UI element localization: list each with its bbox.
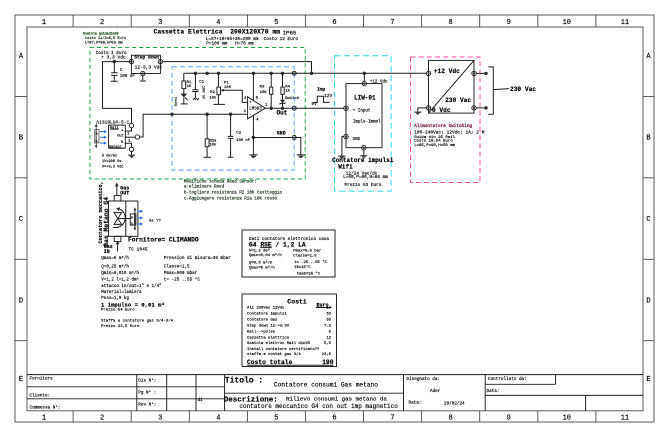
svg-text:t= -25 ..55 °C: t= -25 ..55 °C — [294, 260, 327, 265]
svg-text:TC 1045: TC 1045 — [128, 246, 148, 252]
wire 12V feed from PSU to step-down — [163, 62, 312, 74]
svg-text:2: 2 — [100, 19, 104, 27]
wire LIW GND to ground — [342, 137, 344, 156]
svg-text:Contatore consumi Gas metano: Contatore consumi Gas metano — [274, 381, 378, 388]
svg-text:Prezzo 63 Euro: Prezzo 63 Euro — [345, 183, 382, 188]
svg-text:1V=200 Gs: 1V=200 Gs — [102, 160, 121, 164]
svg-text:10: 10 — [563, 19, 571, 27]
ground hall pin3 — [128, 152, 135, 158]
svg-text:L=69,P=90,H=66 mm: L=69,P=90,H=66 mm — [343, 175, 388, 180]
svg-text:Switch: Switch — [285, 96, 300, 101]
impulse counter module LIW-01 — [344, 80, 388, 150]
svg-text:Pg N° :: Pg N° : — [138, 390, 156, 395]
svg-text:Cliente:: Cliente: — [30, 393, 51, 398]
costs table box — [242, 294, 337, 367]
svg-text:230 Vac: 230 Vac — [510, 86, 536, 93]
ground stepdown — [140, 76, 146, 81]
svg-text:9: 9 — [507, 415, 511, 423]
gas meter G4 mechanical counter — [104, 183, 162, 255]
svg-text:0: 0 — [121, 141, 123, 145]
svg-text:Contatore Gas: Contatore Gas — [247, 319, 278, 323]
svg-text:Pmax=500 mbar: Pmax=500 mbar — [164, 271, 198, 276]
svg-text:10k: 10k — [209, 143, 217, 148]
svg-text:C: C — [19, 216, 23, 224]
svg-text:Hall: Hall — [110, 126, 119, 131]
ground op-amp pin4 — [249, 155, 258, 158]
svg-text:10: 10 — [563, 415, 571, 423]
svg-text:Contatore impulsi: Contatore impulsi — [247, 312, 287, 317]
svg-text:63: 63 — [326, 313, 331, 317]
GND net rail — [253, 130, 300, 154]
modification notes — [184, 179, 282, 201]
svg-text:Wifi: Wifi — [338, 164, 353, 171]
svg-text:C: C — [646, 216, 650, 224]
svg-text:C2: C2 — [236, 132, 241, 136]
svg-text:Hall-->pulse: Hall-->pulse — [247, 330, 276, 335]
connector bracket 230Vac — [488, 67, 493, 114]
svg-text:Rilievo consumi gas metano da: Rilievo consumi gas metano da — [286, 396, 387, 403]
svg-text:20/02/24: 20/02/24 — [444, 401, 465, 406]
meter specs right column — [164, 256, 231, 282]
electronic meter data box — [242, 230, 335, 277]
svg-text:+12 Vdc: +12 Vdc — [370, 80, 388, 85]
ground LIW gnd pin — [338, 156, 345, 158]
PSU notes — [414, 124, 485, 148]
svg-text:Rev N°:: Rev N°: — [138, 402, 156, 407]
magnet symbol at hall — [95, 124, 107, 149]
svg-text:GND: GND — [353, 138, 361, 142]
hall sensor U-hall A1319LUA-5-1 — [96, 119, 139, 151]
svg-text:Costo 18,54 Euro: Costo 18,54 Euro — [414, 139, 453, 144]
pink dashed power-supply box — [411, 57, 481, 183]
svg-text:Prezzo 23,5 Euro: Prezzo 23,5 Euro — [101, 324, 140, 329]
svg-text:Pmax=0,5 bar: Pmax=0,5 bar — [293, 249, 321, 254]
top header texts — [83, 29, 298, 47]
svg-text:6: 6 — [332, 415, 336, 423]
svg-text:2: 2 — [100, 415, 104, 423]
svg-text:Ader: Ader — [430, 389, 441, 394]
boundary connector on rail — [292, 71, 296, 75]
svg-text:6: 6 — [332, 19, 336, 27]
node +3,3 Vdc label — [96, 51, 127, 60]
svg-text:8: 8 — [448, 415, 452, 423]
svg-text:3: 3 — [158, 19, 162, 27]
svg-text:Costo 11/2=5,5 Euro: Costo 11/2=5,5 Euro — [85, 36, 126, 41]
svg-text:7: 7 — [390, 415, 394, 423]
svg-text:Gs ??: Gs ?? — [149, 220, 162, 224]
svg-text:12: 12 — [326, 337, 331, 341]
svg-text:Impls-Immel: Impls-Immel — [353, 120, 381, 125]
svg-text:Step down 12->3,3V: Step down 12->3,3V — [247, 324, 290, 329]
svg-text:5 mv/Gs: 5 mv/Gs — [102, 153, 117, 158]
input rail to inverting input — [172, 113, 247, 115]
svg-text:1: 1 — [42, 19, 46, 27]
wire PSU 0V to ground — [418, 108, 427, 112]
svg-text:E: E — [646, 376, 650, 384]
ground PSU — [414, 112, 421, 114]
svg-text:Disegnato da:: Disegnato da: — [407, 377, 441, 382]
resistor R3 10K — [260, 73, 273, 108]
svg-text:S: S — [96, 139, 98, 143]
svg-text:S: S — [131, 222, 133, 225]
svg-text:GND: GND — [277, 130, 286, 136]
svg-text:5: 5 — [274, 415, 278, 423]
svg-text:di: di — [198, 398, 204, 403]
svg-text:12V: 12V — [324, 93, 332, 99]
svg-text:Modifiche scheda Reed Sensor:: Modifiche scheda Reed Sensor: — [184, 179, 257, 184]
wires PSU AC side — [476, 73, 486, 108]
svg-text:7: 7 — [390, 19, 394, 27]
svg-text:Fornitore= CLIMANDO: Fornitore= CLIMANDO — [128, 236, 199, 243]
green dashed enclosure box — [90, 48, 305, 180]
svg-text:IP65: IP65 — [283, 30, 297, 37]
svg-text:+: + — [249, 101, 252, 106]
svg-text:Out: Out — [277, 110, 288, 117]
node junction 3.3V — [113, 60, 116, 63]
svg-text:1K: 1K — [285, 90, 290, 94]
svg-text:Scatola guidadin35: Scatola guidadin35 — [83, 31, 119, 35]
leader and label 230 Vac — [493, 89, 509, 90]
svg-text:Pression di misura=36 mbar: Pression di misura=36 mbar — [164, 256, 231, 261]
svg-text:contatore meccanico G4 con out: contatore meccanico G4 con out imp magne… — [239, 403, 398, 410]
svg-text:23,5: 23,5 — [322, 353, 332, 357]
svg-text:-: - — [249, 113, 252, 118]
svg-text:2: 2 — [127, 132, 129, 136]
svg-text:100-240Vac; 12Vdc; 1A; 2 M: 100-240Vac; 12Vdc; 1A; 2 M — [414, 130, 485, 136]
svg-text:12-3,3 Vdc: 12-3,3 Vdc — [135, 65, 163, 71]
svg-text:1 impulso = 0,01 m³: 1 impulso = 0,01 m³ — [101, 301, 165, 308]
frame row ticks and letters — [15, 53, 654, 384]
resistor R2a 10k — [204, 114, 217, 157]
svg-text:1K: 1K — [187, 85, 192, 89]
svg-text:Staffa a contatore gas 3/4-3/4: Staffa a contatore gas 3/4-3/4 — [101, 318, 174, 323]
svg-text:Prezzo 54 Euro: Prezzo 54 Euro — [101, 307, 135, 312]
capacitor C 100nF — [111, 62, 136, 82]
svg-text:Out: Out — [117, 134, 123, 138]
wire 3.3V loop to hall supply — [103, 62, 132, 124]
svg-text:230 Vac: 230 Vac — [445, 97, 471, 104]
svg-text:LIW-01: LIW-01 — [354, 95, 376, 102]
blue dashed sensor-board box — [172, 67, 294, 170]
svg-text:Fornitore: Fornitore — [30, 377, 54, 382]
svg-text:P=100 mm H=70 mm: P=100 mm H=70 mm — [206, 42, 254, 47]
svg-text:tamb=25 °C: tamb=25 °C — [297, 272, 321, 277]
wire hall out to comparator input — [140, 114, 173, 137]
svg-text:G4 RSE / 1,2 LA: G4 RSE / 1,2 LA — [249, 242, 306, 249]
svg-text:Alimentatore Switching: Alimentatore Switching — [414, 124, 472, 129]
op-amp U1 LM393 — [244, 73, 268, 154]
svg-text:Material=lamiera: Material=lamiera — [101, 290, 142, 295]
resistor R4 1K with switch diode — [280, 73, 300, 108]
capacitor C2 100nF — [228, 114, 251, 157]
svg-text:10k: 10k — [209, 96, 217, 101]
svg-text:Cassetta Elettrica 200X120X70: Cassetta Elettrica 200X120X70 mm — [154, 29, 281, 36]
step-down converter U-stepdown — [129, 55, 162, 76]
svg-text:D: D — [646, 298, 650, 306]
svg-text:11: 11 — [621, 19, 629, 27]
reed switch (to eliminate) — [174, 89, 187, 107]
svg-text:+ Input: + Input — [353, 109, 371, 113]
svg-text:Install contatore certificato?: Install contatore certificato?? — [247, 347, 320, 352]
svg-text:L=87,P=88,H=59 mm: L=87,P=88,H=59 mm — [85, 42, 123, 46]
svg-text:8: 8 — [448, 19, 452, 27]
svg-text:D: D — [19, 298, 23, 306]
svg-text:Controllato da:: Controllato da: — [488, 377, 527, 382]
svg-text:staffa a contat gas 3/4: staffa a contat gas 3/4 — [247, 352, 301, 357]
svg-text:a-eliminare Reed: a-eliminare Reed — [184, 185, 225, 190]
svg-text:V=+3,3 Vdc: V=+3,3 Vdc — [102, 164, 124, 169]
svg-text:Step down: Step down — [134, 55, 159, 61]
svg-text:Imp: Imp — [317, 87, 326, 93]
ground LIW bottom pin — [360, 150, 367, 158]
svg-text:10K: 10K — [260, 91, 268, 95]
svg-text:Titolo :: Titolo : — [225, 377, 263, 386]
title block — [27, 375, 643, 411]
potentiometer P1 10K (R2 label) — [209, 73, 247, 104]
svg-text:OUT: OUT — [120, 190, 129, 196]
svg-text:0 Vdc: 0 Vdc — [432, 107, 451, 114]
svg-text:56: 56 — [326, 319, 331, 323]
svg-text:attacco in/out=1" e 1/4": attacco in/out=1" e 1/4" — [101, 284, 161, 289]
svg-text:Classe=1,5: Classe=1,5 — [164, 265, 190, 270]
svg-text:5,5: 5,5 — [324, 342, 332, 346]
svg-text:Dis N°:: Dis N°: — [138, 378, 156, 383]
svg-text:b-togliere resistenza R2 10k t: b-togliere resistenza R2 10k tastteggio — [184, 190, 282, 195]
svg-text:10K: 10K — [224, 86, 232, 90]
svg-text:IN: IN — [104, 249, 110, 255]
svg-text:C1: C1 — [199, 81, 204, 85]
resistor R1 1K — [182, 73, 192, 89]
svg-text:19: 19 — [326, 307, 331, 311]
svg-text:11: 11 — [621, 415, 629, 423]
svg-text:9: 9 — [507, 19, 511, 27]
cyan dashed pulse-counter box — [335, 56, 392, 191]
svg-text:L=85,P=90,H=58 mm: L=85,P=90,H=58 mm — [414, 144, 455, 148]
cyan box captions — [332, 157, 394, 188]
svg-text:3: 3 — [128, 140, 130, 144]
svg-text:Peso=1,9 kg: Peso=1,9 kg — [101, 296, 129, 301]
pulse waveform symbol Imp — [312, 87, 333, 108]
svg-text:N: N — [96, 131, 98, 135]
meter supplier labels — [128, 236, 199, 252]
svg-text:A1319LUA-5-1: A1319LUA-5-1 — [96, 119, 129, 125]
svg-text:P1: P1 — [224, 82, 229, 86]
svg-text:100 nF: 100 nF — [236, 139, 250, 143]
wire tap to LIW-01 — [363, 73, 365, 81]
svg-text:Data:: Data: — [409, 401, 422, 406]
svg-text:Gas Metano G4: Gas Metano G4 — [103, 197, 110, 247]
switching power supply T1 — [426, 60, 476, 114]
svg-text:Reed: Reed — [174, 97, 179, 106]
svg-text:3: 3 — [158, 415, 162, 423]
svg-text:c-Aggiungere resistenza R2a 10: c-Aggiungere resistenza R2a 10k rosso — [184, 196, 277, 201]
svg-text:100 nF: 100 nF — [200, 86, 204, 100]
svg-text:LM393: LM393 — [249, 107, 262, 111]
svg-text:B: B — [19, 135, 23, 143]
svg-text:E: E — [19, 376, 23, 384]
svg-text:Sensor: Sensor — [109, 145, 122, 150]
svg-text:+12 Vdc: +12 Vdc — [434, 68, 460, 75]
wire +12V rail to PSU — [312, 72, 427, 74]
svg-text:R3: R3 — [260, 86, 265, 90]
svg-text:5: 5 — [274, 19, 278, 27]
svg-text:4: 4 — [216, 415, 220, 423]
ground C1 — [193, 98, 199, 100]
svg-text:Cassetta elettrica: Cassetta elettrica — [247, 336, 290, 341]
svg-text:+ 3,3 Vdc: + 3,3 Vdc — [101, 55, 126, 61]
svg-text:N: N — [131, 216, 133, 219]
svg-text:0V: 0V — [312, 102, 318, 107]
meter specs left column — [101, 255, 161, 301]
svg-text:t0=15°C: t0=15°C — [294, 265, 311, 270]
+V rail inside sensor board — [184, 72, 312, 74]
ground reed — [181, 103, 188, 105]
svg-text:1: 1 — [42, 415, 46, 423]
svg-text:Scatola elettron Rail din35: Scatola elettron Rail din35 — [247, 341, 311, 346]
comparator output net Out — [266, 106, 344, 116]
svg-text:Data:: Data: — [487, 389, 500, 394]
svg-text:Classe=1,5: Classe=1,5 — [293, 253, 317, 258]
svg-text:7,2: 7,2 — [324, 325, 332, 329]
capacitor C1 100nF — [192, 73, 204, 100]
svg-text:100 nF: 100 nF — [120, 75, 136, 79]
svg-text:Ali 230Vac 12Vdc: Ali 230Vac 12Vdc — [247, 306, 285, 311]
svg-text:R2: R2 — [210, 91, 215, 95]
ground GND rail — [297, 155, 306, 158]
svg-text:Commessa N°:: Commessa N°: — [30, 405, 61, 410]
svg-text:4: 4 — [216, 19, 220, 27]
svg-text:B: B — [646, 135, 650, 143]
svg-text:Costi: Costi — [287, 298, 307, 305]
svg-text:t= -25 ..55 °C: t= -25 ..55 °C — [164, 277, 201, 282]
hall sensor notes — [102, 153, 124, 169]
